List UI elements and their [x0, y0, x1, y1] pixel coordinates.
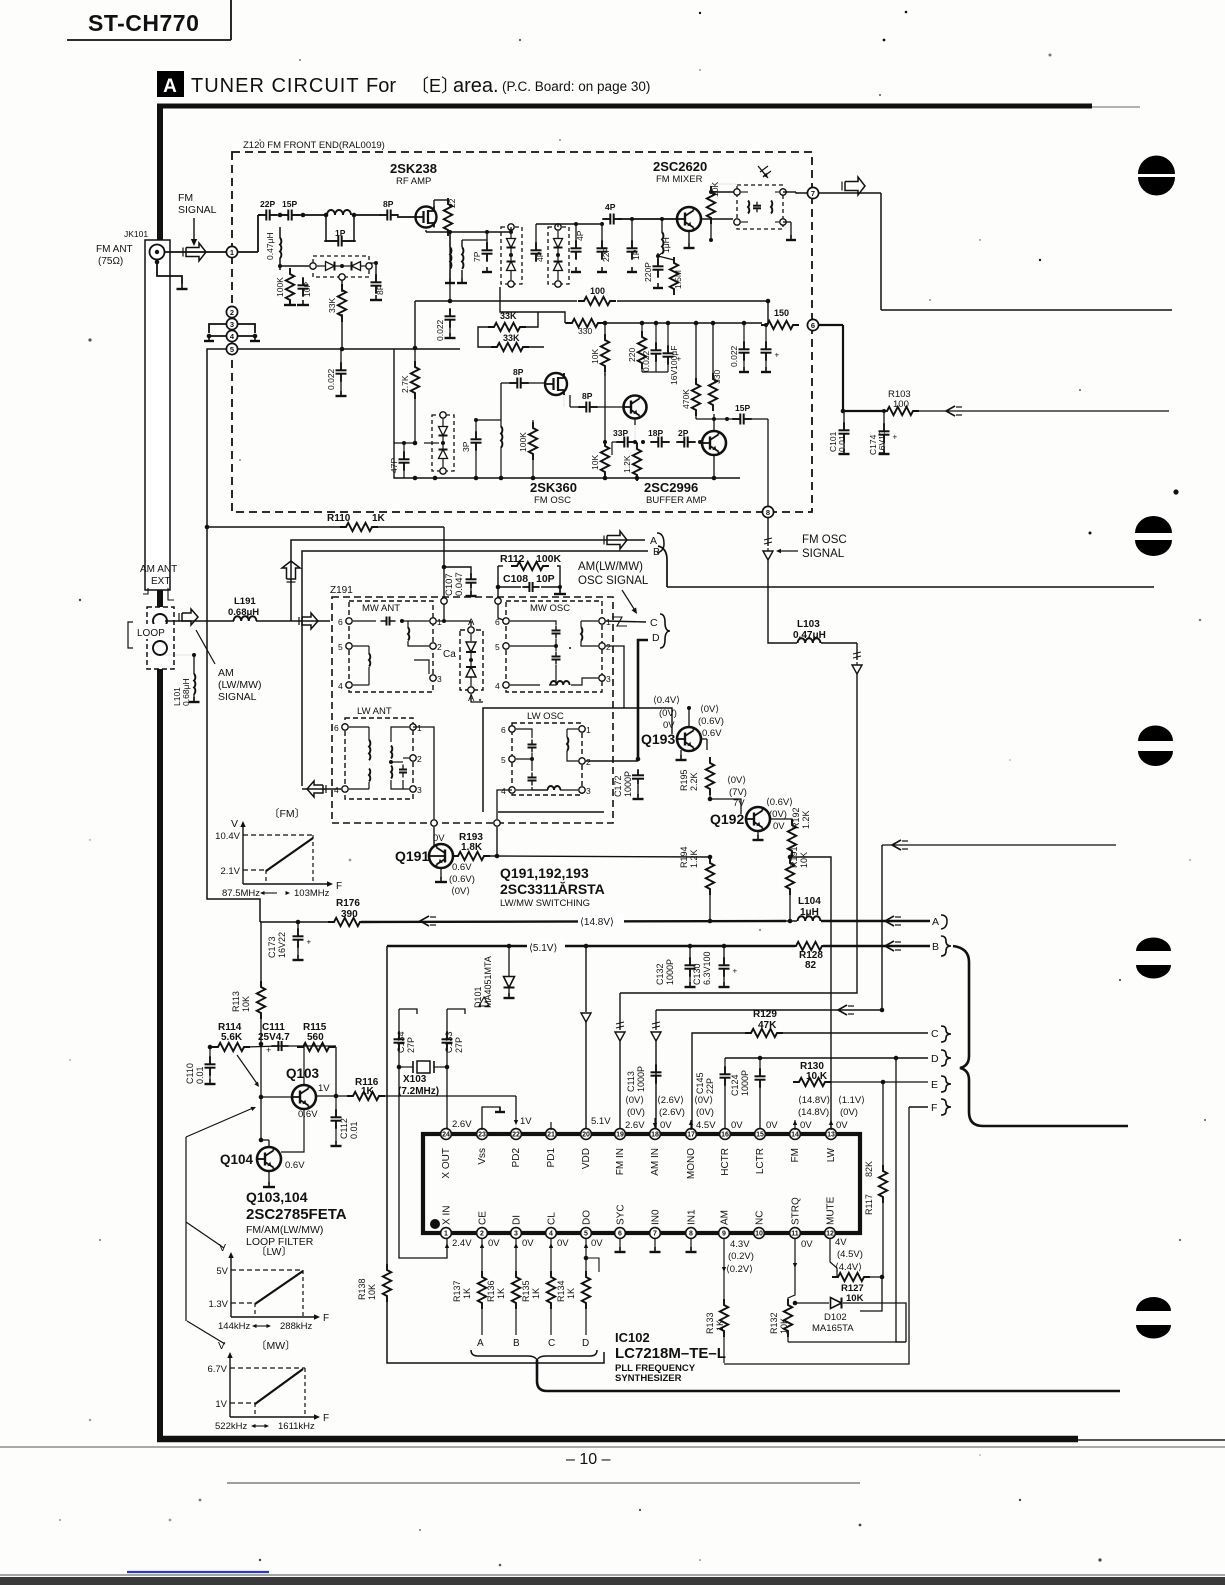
svg-text:16: 16 [721, 1132, 729, 1139]
border frame bottom [157, 1439, 1225, 1440]
svg-text:C133: C133 [444, 1031, 454, 1053]
svg-text:1.2K: 1.2K [622, 455, 632, 473]
svg-text:Z191: Z191 [330, 585, 353, 596]
svg-text:470K: 470K [681, 389, 691, 409]
capacitor 0.022b [641, 325, 662, 372]
svg-text:1V: 1V [215, 1399, 227, 1410]
IC102 pin 4 CL [546, 1212, 558, 1239]
svg-text:⟨0.6V⟩: ⟨0.6V⟩ [766, 797, 793, 808]
capacitor C134 27P [394, 1009, 418, 1067]
svg-text:4.3V: 4.3V [730, 1239, 750, 1250]
svg-text:AM: AM [218, 667, 234, 679]
svg-text:⟨5.1V⟩: ⟨5.1V⟩ [529, 943, 557, 954]
svg-text:19: 19 [616, 1132, 624, 1139]
label AM OSC SIGNAL [578, 561, 649, 614]
svg-text:15: 15 [756, 1132, 764, 1139]
svg-text:A: A [477, 1338, 484, 1349]
svg-text:AM: AM [720, 1210, 731, 1225]
svg-text:5: 5 [584, 1231, 588, 1238]
svg-text:0V: 0V [522, 1238, 534, 1249]
resistor R110 1K [327, 513, 386, 531]
label Q103 104 group [246, 1189, 347, 1248]
IC102 pin 17 MONO [686, 1129, 697, 1180]
svg-text:10K: 10K [241, 996, 251, 1012]
svg-text:0.6V: 0.6V [452, 862, 472, 873]
label 14.8V [578, 914, 624, 928]
svg-text:C113: C113 [626, 1071, 636, 1092]
svg-text:27P: 27P [406, 1037, 416, 1053]
svg-text:22P: 22P [601, 247, 611, 262]
node3 ground straps [204, 324, 260, 341]
svg-text:⟨14.8V⟩: ⟨14.8V⟩ [798, 1095, 831, 1106]
LW graph [208, 1242, 329, 1332]
svg-text:⟨0.4V⟩: ⟨0.4V⟩ [653, 695, 680, 706]
varactor diode pair box [310, 256, 372, 280]
svg-text:0.022: 0.022 [729, 345, 739, 367]
svg-text:DI: DI [512, 1215, 523, 1225]
svg-text:L103: L103 [797, 619, 820, 630]
svg-text:LW OSC: LW OSC [527, 711, 564, 722]
capacitor C173 16V22 [267, 920, 312, 960]
svg-text:F: F [323, 1313, 329, 1324]
inductor L191 [228, 596, 259, 621]
svg-text:4: 4 [501, 786, 506, 796]
capacitor 47P [389, 441, 415, 478]
svg-text:AM IN: AM IN [650, 1148, 661, 1176]
svg-text:B: B [513, 1338, 520, 1349]
label 2SK238 RF AMP [390, 161, 437, 187]
svg-text:18P: 18P [648, 428, 663, 438]
svg-text:33K: 33K [500, 311, 517, 321]
svg-text:+: + [266, 1045, 271, 1055]
svg-text:2: 2 [606, 642, 611, 652]
svg-text:MONO: MONO [686, 1148, 697, 1179]
AM line arrow [179, 609, 198, 625]
label D right [931, 1050, 951, 1066]
Z191 terminal C107 [441, 598, 447, 623]
svg-text:0.01: 0.01 [195, 1066, 205, 1084]
svg-text:E: E [931, 1079, 938, 1091]
svg-text:1.3V: 1.3V [208, 1299, 228, 1310]
capacitor 0.022 rail [326, 349, 347, 396]
wire L103 down [615, 643, 862, 1135]
wire D to LW OSC pin2 [586, 760, 638, 762]
svg-text:D101: D101 [473, 986, 483, 1008]
svg-text:33K: 33K [327, 298, 337, 313]
svg-text:(14.8V): (14.8V) [798, 1107, 829, 1118]
svg-text:R134: R134 [556, 1280, 566, 1302]
svg-text:10 K: 10 K [806, 1071, 828, 1082]
svg-text:5.6K: 5.6K [221, 1032, 243, 1043]
brace AB mid [657, 533, 667, 587]
capacitor C107 0.047 [442, 565, 477, 596]
brace CD mid [660, 614, 670, 648]
resistor R138 10K [357, 1264, 391, 1302]
svg-text:MA165TA: MA165TA [812, 1323, 854, 1334]
capacitor 220P [643, 253, 664, 288]
svg-text:C132: C132 [655, 963, 665, 985]
IC U102 body LC7218M [423, 1134, 860, 1233]
wire Ca [437, 621, 483, 702]
svg-text:R117: R117 [864, 1194, 874, 1215]
resistor 100 feedback [578, 286, 616, 305]
svg-text:1V: 1V [318, 1083, 330, 1094]
wire R193 junction [489, 854, 712, 860]
svg-text:2: 2 [437, 642, 442, 652]
svg-text:+: + [775, 351, 780, 360]
svg-text:5: 5 [501, 755, 506, 765]
svg-text:(2.6V): (2.6V) [659, 1107, 685, 1118]
wire jack to node 1 [165, 251, 227, 253]
wire node5 rail [238, 348, 460, 350]
transistor Q104 [220, 1138, 305, 1187]
capacitor 0.022 rfamp [435, 232, 456, 341]
capacitor 22P mixer [597, 222, 612, 272]
svg-text:R112: R112 [500, 553, 525, 565]
svg-text:IC102: IC102 [615, 1330, 650, 1345]
MW ANT pins [338, 617, 442, 691]
svg-text:10: 10 [755, 1231, 763, 1238]
svg-text:(7V): (7V) [729, 787, 747, 798]
svg-text:0.47μH: 0.47μH [265, 232, 275, 260]
wire D down [636, 640, 648, 761]
svg-text:7: 7 [811, 189, 815, 198]
svg-text:MW OSC: MW OSC [530, 603, 570, 614]
svg-text:1μH: 1μH [800, 907, 819, 918]
bundle wire right [953, 946, 1128, 1126]
svg-text:2SC2996: 2SC2996 [644, 480, 698, 495]
svg-text:10K: 10K [590, 349, 600, 364]
bottom scan edge [0, 1575, 1225, 1585]
resistor R103 100 [881, 389, 919, 415]
varactor box 2 [501, 224, 522, 287]
svg-text:BUFFER AMP: BUFFER AMP [646, 495, 707, 506]
capacitor C112 0.01 [331, 1094, 360, 1146]
svg-text:IN1: IN1 [687, 1209, 698, 1225]
resistor R129 47K [745, 1009, 783, 1037]
svg-text:17: 17 [687, 1132, 695, 1139]
AM loop antenna [147, 607, 174, 669]
svg-text:220P: 220P [643, 262, 653, 282]
svg-text:X IN: X IN [442, 1206, 453, 1225]
IC102 pin 19 FM IN [615, 1129, 626, 1176]
resistor R192 1.2K [770, 807, 811, 859]
svg-text:〔E〕: 〔E〕 [411, 76, 459, 96]
svg-text:10K: 10K [590, 455, 600, 470]
pin voltage labels top row [520, 1116, 848, 1131]
up arrow on A wire [282, 561, 300, 582]
capacitor 15P [280, 199, 299, 221]
svg-text:LCTR: LCTR [755, 1148, 766, 1174]
wire C line [692, 1033, 928, 1135]
arrow on 1010 wire [838, 1005, 854, 1015]
svg-text:5V: 5V [216, 1266, 228, 1277]
svg-text:2: 2 [230, 308, 234, 317]
resistor R194 1.2K [679, 846, 714, 923]
wire varactor [278, 264, 342, 292]
svg-text:TUNER CIRCUIT: TUNER CIRCUIT [191, 75, 360, 97]
svg-text:10.4V: 10.4V [215, 831, 240, 842]
IF transformer dashed box [734, 185, 786, 229]
inductor 1uH [658, 217, 671, 256]
svg-text:(0.6V): (0.6V) [449, 874, 475, 885]
IC102 pin 21 PD1 [546, 1129, 557, 1168]
svg-text:VDD: VDD [581, 1148, 592, 1169]
svg-text:C112: C112 [339, 1118, 349, 1139]
svg-text:5: 5 [230, 345, 234, 354]
svg-text:⟨0.2V⟩: ⟨0.2V⟩ [726, 1264, 753, 1275]
svg-text:33K: 33K [503, 333, 520, 343]
IC102 pin 15 LCTR [755, 1129, 766, 1175]
svg-text:L191: L191 [234, 596, 256, 607]
svg-text:4: 4 [334, 785, 339, 795]
svg-text:R176: R176 [336, 898, 360, 909]
registration mark 5 [1136, 1297, 1171, 1339]
resistor R191 10K [786, 846, 809, 923]
svg-text:(0.2V): (0.2V) [728, 1251, 754, 1262]
svg-text:PD2: PD2 [511, 1148, 522, 1168]
capacitor 18P [641, 428, 670, 448]
svg-text:LOOP: LOOP [137, 628, 165, 639]
wire 5.1V rail [387, 941, 930, 951]
svg-text:X103: X103 [403, 1074, 427, 1085]
capacitor 1P mixer [627, 217, 642, 272]
svg-text:R132: R132 [769, 1312, 779, 1334]
svg-text:V: V [231, 818, 238, 830]
pointer lines to graphs [186, 1137, 225, 1344]
label A mid [650, 535, 657, 547]
svg-text:(0.6V): (0.6V) [698, 716, 724, 727]
inductor input tank [327, 210, 351, 215]
transistor Q103 [261, 1066, 330, 1120]
svg-text:0.68μH: 0.68μH [228, 607, 259, 618]
svg-text:6: 6 [338, 617, 343, 627]
svg-text:10K: 10K [367, 1284, 377, 1300]
D102 return wires [788, 1238, 906, 1342]
resistor R116 1K [316, 1077, 516, 1100]
grounds pins 6 7 8 [615, 1238, 697, 1252]
svg-text:JK101: JK101 [124, 229, 148, 239]
transistor Q193 [641, 727, 707, 760]
svg-text:2.6V: 2.6V [625, 1120, 645, 1131]
capacitor C101 0.01 [828, 411, 850, 454]
IC102 pin 24 X OUT [441, 1129, 452, 1179]
wire D junction down [896, 1058, 906, 1342]
IC102 pin 6 SYC [615, 1204, 627, 1238]
svg-text:1000P: 1000P [636, 1066, 646, 1092]
svg-text:MW ANT: MW ANT [362, 603, 400, 614]
svg-text:15P: 15P [735, 403, 750, 413]
label Ca and A marks [443, 617, 475, 704]
svg-text:16V22: 16V22 [277, 932, 287, 958]
svg-text:22: 22 [512, 1132, 520, 1139]
svg-text:MUTE: MUTE [826, 1196, 837, 1225]
capacitor 33P [612, 428, 636, 455]
svg-text:150: 150 [774, 308, 789, 318]
wire osc signal B line right [667, 586, 1154, 588]
svg-text:10K: 10K [799, 852, 809, 868]
svg-text:0V: 0V [731, 1120, 743, 1131]
svg-text:0.01: 0.01 [349, 1121, 359, 1139]
label D mid [652, 632, 660, 644]
wire B line [302, 551, 648, 786]
svg-text:47P: 47P [389, 458, 399, 473]
svg-text:⟨0V⟩: ⟨0V⟩ [727, 775, 746, 786]
svg-text:SIGNAL: SIGNAL [178, 204, 217, 216]
Vss ground [482, 1107, 505, 1130]
wire R110 [205, 525, 444, 598]
crystal X103 [397, 1061, 450, 1097]
svg-text:0V: 0V [488, 1238, 500, 1249]
label C right [931, 1026, 951, 1042]
capacitor C108 10P [496, 566, 566, 594]
svg-text:Z120 FM FRONT END(RAL0019): Z120 FM FRONT END(RAL0019) [243, 140, 385, 151]
svg-text:SIGNAL: SIGNAL [218, 691, 257, 703]
svg-text:⟨0V⟩: ⟨0V⟩ [451, 886, 470, 897]
svg-text:7V: 7V [733, 798, 745, 809]
svg-text:(LW/MW): (LW/MW) [218, 679, 262, 691]
label FM SIGNAL [178, 192, 217, 246]
resistor 2.7K [400, 348, 419, 445]
svg-text:2SK360: 2SK360 [530, 480, 577, 495]
MW OSC dashed box [506, 601, 602, 692]
svg-text:Q193: Q193 [641, 731, 675, 747]
svg-text:4V: 4V [835, 1237, 847, 1248]
resistor 1.5M [658, 256, 683, 295]
label IC102 [615, 1330, 726, 1384]
svg-text:C134: C134 [396, 1031, 406, 1053]
label Q19x group [500, 865, 605, 909]
svg-text:SIGNAL: SIGNAL [802, 548, 845, 560]
wire 5.1V down into box [581, 944, 591, 1135]
capacitor 10P [298, 277, 313, 297]
resistor R132 10K [769, 1238, 797, 1342]
IC102 pin 1 X IN [441, 1206, 453, 1239]
resistor 10K osc em [590, 373, 609, 478]
FET 2SK238 [397, 207, 437, 228]
Z191 bottom terminals [431, 820, 500, 826]
svg-text:R113: R113 [231, 991, 241, 1012]
IC102 pin 12 MUTE [825, 1196, 837, 1238]
svg-text:〔LW〕: 〔LW〕 [256, 1245, 292, 1258]
svg-text:2SC2785FETA: 2SC2785FETA [246, 1206, 347, 1223]
svg-text:C110: C110 [185, 1063, 195, 1084]
wire AM line [165, 613, 330, 629]
svg-text:288kHz: 288kHz [280, 1321, 312, 1332]
LW OSC shield box [483, 708, 604, 812]
svg-text:Q103,104: Q103,104 [246, 1189, 308, 1205]
wire x261 column [260, 922, 262, 987]
svg-text:23: 23 [478, 1132, 486, 1139]
IC102 pin 22 PD2 [511, 1129, 522, 1168]
wire node7 off page [819, 177, 1172, 310]
svg-text:100K: 100K [536, 553, 562, 565]
wire F return [724, 1107, 909, 1364]
svg-text:6.3V100: 6.3V100 [702, 951, 712, 985]
svg-text:1K: 1K [715, 1320, 725, 1331]
IC102 pin 10 NC [754, 1211, 766, 1239]
svg-text:4P: 4P [605, 202, 616, 212]
wire pin5 branch [584, 1256, 599, 1272]
svg-text:0V: 0V [766, 1120, 778, 1131]
inductor L104 [786, 896, 930, 926]
label B right [932, 936, 951, 956]
svg-text:0V: 0V [591, 1238, 603, 1249]
svg-text:10P: 10P [302, 282, 312, 297]
svg-text:(0V): (0V) [840, 1107, 858, 1118]
IC102 pin 18 AM IN [650, 1129, 661, 1176]
transistor 2SC2996 buffer [700, 414, 726, 478]
svg-text:Ca: Ca [443, 649, 456, 660]
svg-text:8P: 8P [383, 199, 394, 209]
svg-text:560: 560 [307, 1032, 324, 1043]
border frame left [157, 104, 163, 1440]
wire B to LW ANT pin4 arrow [302, 781, 341, 797]
svg-text:C: C [931, 1028, 939, 1040]
svg-text:C173: C173 [267, 936, 277, 958]
svg-text:82: 82 [805, 960, 817, 971]
svg-text:100: 100 [590, 286, 605, 296]
svg-text:D: D [652, 632, 660, 644]
svg-text:FM ANT: FM ANT [96, 244, 133, 255]
svg-text:13: 13 [827, 1132, 835, 1139]
wire LW ANT pin1 down [413, 727, 434, 845]
FM graph [215, 807, 342, 899]
LW ANT internals [349, 727, 409, 789]
svg-text:0.047: 0.047 [454, 572, 465, 596]
svg-text:0.68μH: 0.68μH [181, 678, 191, 706]
svg-text:IN0: IN0 [651, 1209, 662, 1225]
resistor R137 1K [452, 1238, 486, 1335]
capacitor 0.022 out [729, 323, 750, 372]
svg-text:MA4051MTA: MA4051MTA [483, 956, 493, 1008]
jack ground [155, 260, 188, 289]
model label box ST-CH770 [67, 0, 231, 40]
svg-text:+: + [733, 967, 738, 976]
node 8 [762, 506, 773, 517]
registration mark 3 [1138, 726, 1173, 767]
registration mark 2 [1135, 516, 1172, 556]
svg-text:7P: 7P [472, 251, 482, 262]
svg-text:A: A [163, 76, 177, 97]
MW ANT dashed box [349, 601, 433, 692]
IC102 pin 9 AM [719, 1210, 731, 1238]
svg-text:0V: 0V [800, 1120, 812, 1131]
svg-text:R136: R136 [486, 1280, 496, 1302]
label C mid [650, 617, 658, 629]
svg-text:3: 3 [230, 320, 234, 329]
label 5.1V [527, 940, 565, 954]
resistor R117 82K [864, 1082, 887, 1277]
osc coil [474, 418, 502, 478]
svg-text:22P: 22P [260, 199, 275, 209]
svg-text:FM OSC: FM OSC [534, 495, 571, 506]
MW graph [207, 1339, 329, 1432]
label LOOP [128, 622, 170, 648]
rail wire 323 [500, 287, 762, 325]
FET 2SK360 [545, 373, 567, 407]
svg-text:Q191: Q191 [395, 848, 429, 864]
svg-text:R195: R195 [679, 769, 689, 791]
arrow pointer Q104 [186, 1107, 256, 1137]
resistor 1.2K [622, 442, 641, 481]
svg-text:2: 2 [586, 757, 591, 767]
svg-text:3: 3 [606, 674, 611, 684]
svg-text:LW/MW SWITCHING: LW/MW SWITCHING [500, 898, 590, 909]
svg-text:1.2K: 1.2K [801, 810, 811, 829]
svg-text:PD1: PD1 [546, 1148, 557, 1168]
svg-text:0V: 0V [433, 833, 445, 844]
